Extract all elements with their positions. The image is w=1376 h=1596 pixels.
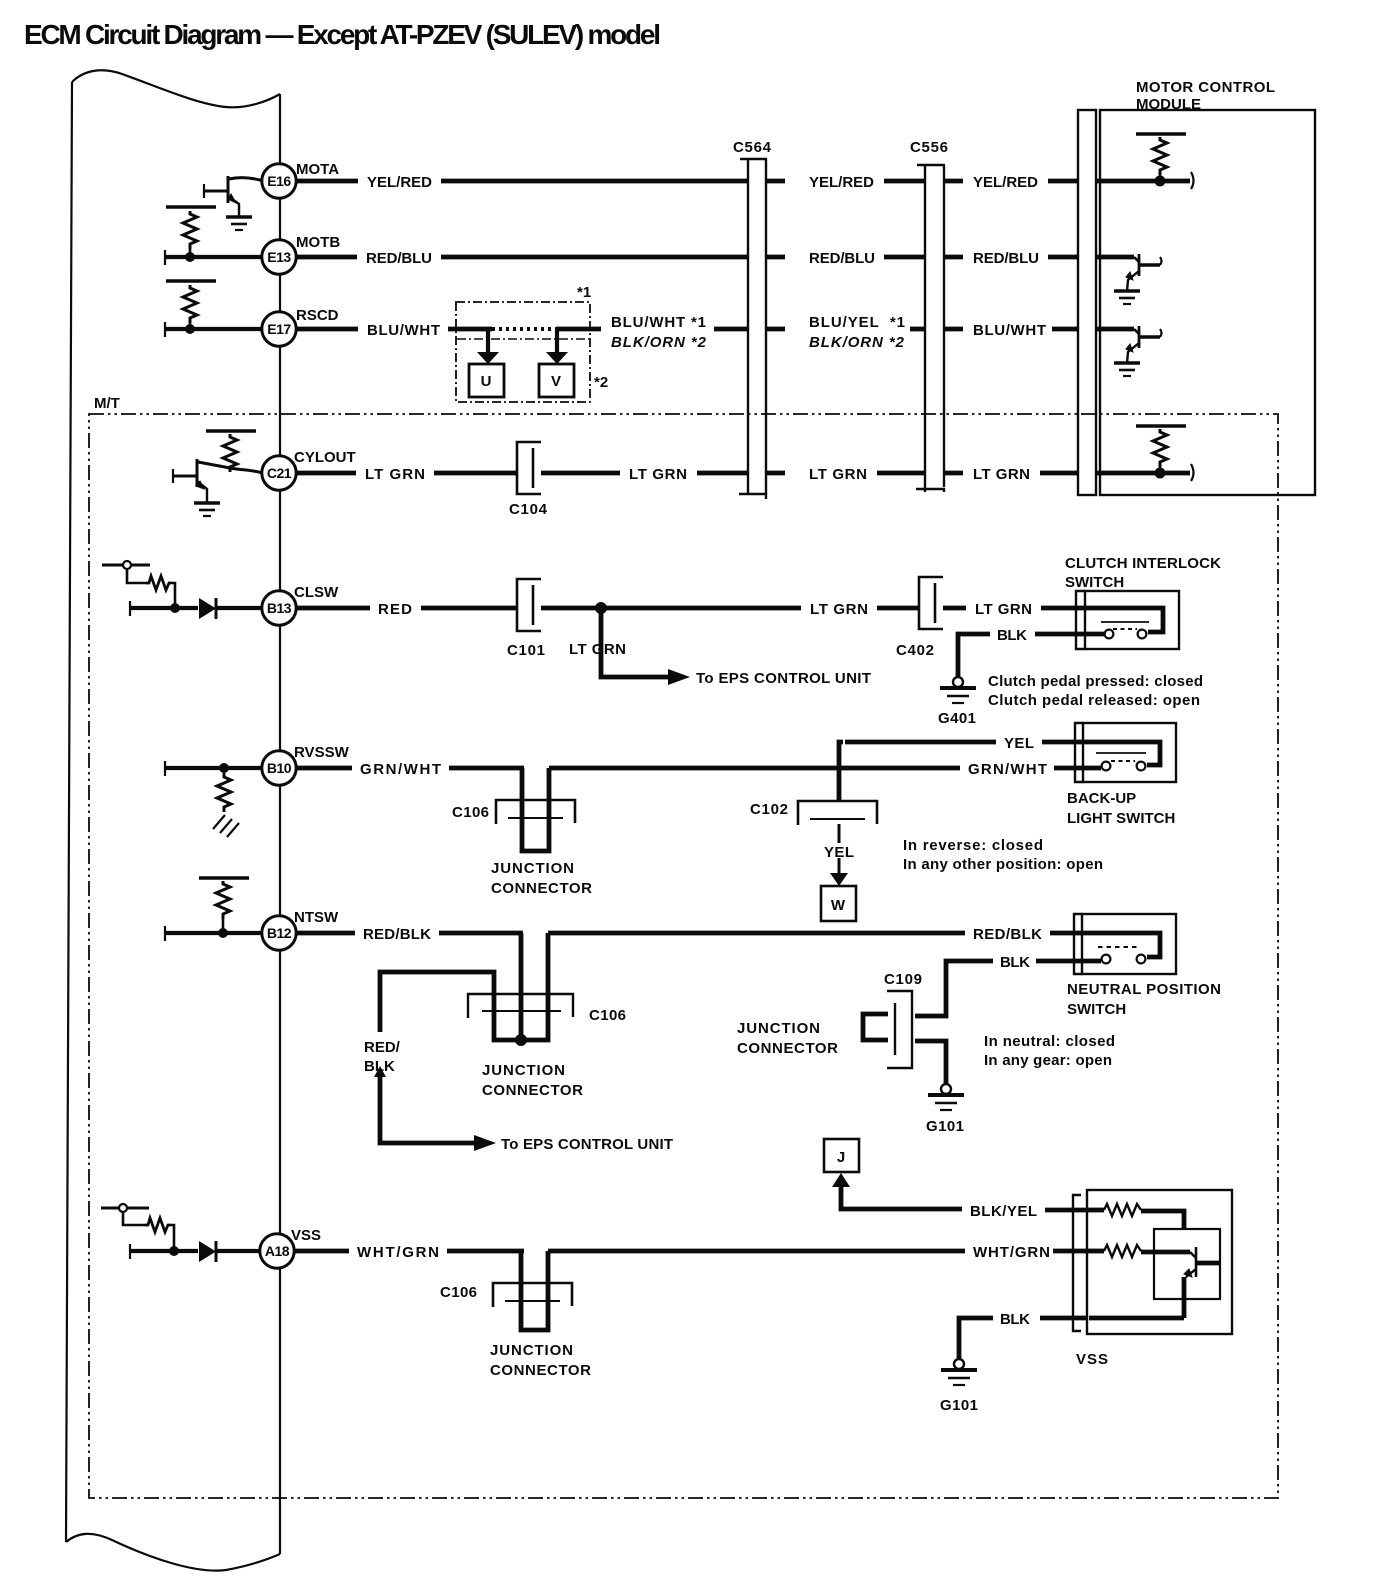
svg-text:VSS: VSS	[291, 1227, 321, 1244]
terminal box U	[469, 364, 504, 397]
svg-text:C102: C102	[750, 801, 788, 818]
wire (ECM internal to B13)	[131, 606, 198, 610]
pin E17	[262, 312, 296, 346]
wire (C564 stub)	[766, 327, 785, 332]
wire LT GRN (C402 to clutch switch)	[943, 606, 966, 611]
resistor (module row 4 pull-up)	[1136, 426, 1186, 473]
svg-text:BLU/WHT: BLU/WHT	[367, 322, 440, 339]
connector C402	[919, 577, 943, 629]
wire (resistor to A18 wire)	[171, 1225, 174, 1249]
wire (ECM internal top, B13)	[102, 564, 150, 567]
wire (module internal row 4)	[1096, 471, 1190, 476]
svg-text:LT GRN: LT GRN	[975, 601, 1032, 618]
junction (A18 internal)	[169, 1246, 179, 1256]
pin E13	[262, 240, 296, 274]
svg-text:C104: C104	[509, 501, 548, 518]
svg-text:Clutch pedal released: open: Clutch pedal released: open	[988, 692, 1200, 709]
wire RED/BLK (C106 to neutral switch)	[548, 931, 965, 936]
svg-text:E13: E13	[267, 249, 291, 265]
wire RED/BLU (C564 to C556)	[766, 255, 925, 260]
ground G101 (VSS)	[941, 1359, 977, 1385]
wire (option box to label)	[556, 327, 601, 332]
resistor (ECM internal at C21)	[206, 431, 256, 472]
transistor Q (ECM internal, at C21)	[173, 459, 263, 502]
back-up light switch	[1075, 723, 1176, 782]
svg-text:LT GRN: LT GRN	[629, 466, 687, 483]
clutch interlock switch label	[1065, 555, 1221, 591]
svg-text:MOTOR CONTROL: MOTOR CONTROL	[1136, 79, 1275, 96]
junction (B10 internal)	[219, 763, 229, 773]
VSS sensor box	[1087, 1190, 1232, 1334]
label JUNCTION CONNECTOR (C109)	[737, 1020, 838, 1057]
svg-text:RED/BLK: RED/BLK	[973, 926, 1042, 943]
svg-text:ECM Circuit Diagram — Except A: ECM Circuit Diagram — Except AT-PZEV (SU…	[24, 19, 661, 50]
wire LT GRN (C564 to C556)	[766, 471, 925, 476]
svg-text:LT GRN: LT GRN	[810, 601, 868, 618]
svg-text:C109: C109	[884, 971, 922, 988]
wire (module internal row 2)	[1096, 255, 1134, 260]
label JUNCTION CONNECTOR	[491, 860, 592, 897]
wire BLK (to C109 top)	[915, 961, 993, 1016]
junction connector C106 (third)	[493, 1251, 572, 1330]
wire RED/BLK branch (to EPS)	[380, 972, 494, 1143]
pin E16	[262, 164, 296, 198]
transistor (module row 2)	[1126, 254, 1162, 291]
resistor (ECM internal at E13)	[166, 207, 216, 257]
svg-text:B13: B13	[267, 600, 292, 616]
option box inner dashed line	[457, 338, 589, 340]
svg-text:B10: B10	[267, 760, 292, 776]
svg-text:CYLOUT: CYLOUT	[294, 449, 356, 466]
back-up light switch label	[1067, 790, 1175, 827]
svg-text:SWITCH: SWITCH	[1065, 574, 1124, 591]
svg-text:J: J	[837, 1149, 845, 1166]
svg-text:C564: C564	[733, 139, 772, 156]
wire (into neutral switch)	[1050, 931, 1083, 936]
svg-text:To EPS CONTROL UNIT: To EPS CONTROL UNIT	[501, 1136, 673, 1153]
svg-text:C21: C21	[267, 465, 292, 481]
wire (to module)	[1052, 327, 1078, 332]
svg-text:YEL/RED: YEL/RED	[809, 174, 874, 191]
ground (hatch, at B10 resistor)	[213, 815, 239, 837]
motor control module connector bar	[1078, 110, 1096, 495]
svg-text:RED/: RED/	[364, 1039, 401, 1056]
wire RED/BLK (B12 to C106)	[295, 931, 523, 936]
arrow (to EPS control unit)	[668, 669, 690, 685]
wire YEL/RED (E16 to C564)	[295, 179, 748, 184]
wire YEL/RED (C564 to C556)	[766, 179, 925, 184]
svg-text:Clutch pedal pressed: closed: Clutch pedal pressed: closed	[988, 673, 1203, 690]
motor control module box	[1100, 110, 1315, 495]
svg-text:BLK: BLK	[1000, 1311, 1030, 1328]
wire (ECM internal to A18)	[131, 1249, 198, 1253]
svg-text:W: W	[831, 897, 846, 914]
wire (C556 stub)	[944, 327, 963, 332]
wire stub V	[555, 329, 559, 352]
svg-text:NTSW: NTSW	[294, 909, 339, 926]
wire (ECM internal to B12)	[166, 931, 263, 935]
svg-text:RED/BLU: RED/BLU	[366, 250, 432, 267]
svg-text:BACK-UP: BACK-UP	[1067, 790, 1136, 807]
svg-text:RED: RED	[378, 601, 412, 618]
wire (module internal row 1)	[1096, 179, 1190, 184]
ground (module row 3)	[1114, 363, 1140, 376]
wire (resistor to B13 wire)	[172, 583, 175, 606]
svg-text:C106: C106	[440, 1284, 477, 1301]
wire GRN/WHT (C106 to back-up switch)	[549, 766, 960, 771]
pin B13	[262, 591, 296, 625]
svg-text:C101: C101	[507, 642, 545, 659]
connector C109	[863, 991, 912, 1068]
wire (to C556)	[910, 327, 925, 332]
ground (at C21 transistor)	[194, 503, 220, 516]
diode (ECM internal at B13)	[199, 598, 263, 619]
svg-text:*2: *2	[594, 374, 608, 391]
terminal box J	[824, 1139, 859, 1172]
label RED/ BLK	[364, 1039, 401, 1075]
wire (branch to EPS)	[601, 608, 668, 677]
wire BLK/YEL (J to VSS)	[841, 1186, 962, 1209]
arrow to W	[830, 873, 848, 886]
resistor (ECM internal at B10)	[217, 768, 231, 812]
note neutral states	[984, 1033, 1115, 1069]
svg-text:LT GRN: LT GRN	[569, 641, 626, 658]
arrow (branch direction up)	[374, 1066, 386, 1077]
svg-text:G101: G101	[940, 1397, 978, 1414]
svg-text:*1: *1	[577, 284, 591, 301]
wire (C109 bottom to G101)	[915, 1041, 946, 1083]
svg-text:To EPS CONTROL UNIT: To EPS CONTROL UNIT	[696, 670, 871, 687]
resistor (ECM internal at E17)	[166, 281, 216, 329]
wire (to C564)	[714, 327, 748, 332]
svg-text:MOTA: MOTA	[296, 161, 339, 178]
wire YEL (C102 to W)	[838, 824, 841, 873]
wire LT GRN (C101 to C402)	[541, 606, 801, 611]
option dashed box *1	[456, 302, 590, 402]
terminal tick	[1191, 172, 1194, 189]
resistor (VSS internal, WHT/GRN row)	[1089, 1245, 1190, 1257]
svg-text:WHT/GRN: WHT/GRN	[973, 1244, 1050, 1261]
svg-text:E17: E17	[267, 321, 291, 337]
wire stub U	[486, 329, 490, 352]
M/T dashed boundary box	[89, 414, 1278, 1498]
terminal tick	[129, 601, 131, 616]
pin B10	[262, 751, 296, 785]
svg-text:In reverse: closed: In reverse: closed	[903, 837, 1043, 854]
junction (B13 internal)	[170, 603, 180, 613]
wire BLU/WHT (into option box)	[448, 327, 492, 332]
terminal tick	[1191, 464, 1194, 481]
svg-text:BLU/YEL *1: BLU/YEL *1	[809, 314, 905, 331]
svg-text:E16: E16	[267, 173, 291, 189]
wire WHT/GRN (C106 to VSS sensor)	[548, 1249, 965, 1254]
wire (module internal row 3)	[1096, 327, 1134, 332]
ECM module torn-paper body	[66, 70, 280, 1570]
junction (B12 internal)	[218, 928, 228, 938]
neutral position switch label	[1067, 981, 1221, 1018]
resistor (ECM internal at B12)	[199, 878, 249, 933]
junction (module row 4)	[1155, 468, 1166, 479]
svg-text:CONNECTOR: CONNECTOR	[737, 1040, 838, 1057]
svg-text:C402: C402	[896, 642, 934, 659]
wire RED/BLU (C556 to module)	[944, 255, 1078, 260]
terminal box W	[821, 886, 856, 921]
svg-text:JUNCTION: JUNCTION	[482, 1062, 565, 1079]
svg-text:B12: B12	[267, 925, 292, 941]
connector C564	[739, 159, 767, 499]
connector C101	[517, 579, 541, 631]
svg-text:YEL: YEL	[1004, 735, 1034, 752]
svg-text:LIGHT SWITCH: LIGHT SWITCH	[1067, 810, 1175, 827]
svg-text:RSCD: RSCD	[296, 307, 339, 324]
terminal box V	[539, 364, 574, 397]
svg-text:G101: G101	[926, 1118, 964, 1135]
diode (ECM internal at A18)	[199, 1241, 261, 1262]
svg-text:JUNCTION: JUNCTION	[737, 1020, 820, 1037]
svg-text:U: U	[481, 373, 492, 390]
svg-text:BLK/YEL: BLK/YEL	[970, 1203, 1037, 1220]
svg-text:SWITCH: SWITCH	[1067, 1001, 1126, 1018]
svg-text:In any other position: open: In any other position: open	[903, 856, 1103, 873]
ground (module row 2)	[1114, 291, 1140, 304]
svg-text:BLK: BLK	[997, 627, 1027, 644]
svg-text:YEL/RED: YEL/RED	[367, 174, 432, 191]
transistor Q (ECM internal, at E16)	[204, 176, 263, 216]
svg-text:YEL: YEL	[824, 844, 854, 861]
svg-text:NEUTRAL POSITION: NEUTRAL POSITION	[1067, 981, 1221, 998]
svg-text:C106: C106	[452, 804, 489, 821]
wire (ECM internal to B10)	[166, 766, 263, 770]
transistor (VSS internal)	[1184, 1247, 1219, 1318]
svg-text:LT GRN: LT GRN	[973, 466, 1030, 483]
wire RED/BLU (E13 to C564)	[295, 255, 748, 260]
svg-text:M/T: M/T	[94, 395, 120, 412]
svg-text:YEL/RED: YEL/RED	[973, 174, 1038, 191]
arrow into J	[832, 1173, 850, 1187]
connector C556	[916, 165, 945, 492]
ground (at E16 transistor)	[226, 217, 252, 230]
junction connector C106 (second)	[468, 933, 573, 1040]
svg-text:G401: G401	[938, 710, 976, 727]
svg-text:BLK: BLK	[1000, 954, 1030, 971]
svg-text:LT GRN: LT GRN	[809, 466, 867, 483]
wire (YEL drop to C102)	[839, 742, 843, 802]
wire BLK (neutral switch to C109)	[1036, 959, 1083, 964]
wire BLK (VSS to label)	[1040, 1316, 1087, 1321]
resistor (ECM internal at B13)	[146, 576, 172, 590]
junction (LT GRN branch)	[595, 602, 607, 614]
wire (into back-up switch)	[1054, 766, 1084, 771]
label JUNCTION CONNECTOR	[482, 1062, 583, 1099]
svg-text:CLUTCH INTERLOCK: CLUTCH INTERLOCK	[1065, 555, 1221, 572]
svg-text:RED/BLU: RED/BLU	[809, 250, 875, 267]
svg-text:C106: C106	[589, 1007, 626, 1024]
ground G101	[928, 1084, 964, 1110]
resistor (VSS internal, BLK/YEL row)	[1089, 1204, 1184, 1229]
wire LT GRN (C556 to module)	[944, 471, 1078, 476]
arrow to V	[546, 352, 568, 364]
wire YEL/RED (C556 to module)	[944, 179, 1078, 184]
svg-text:A18: A18	[265, 1243, 290, 1259]
terminal tick	[164, 761, 166, 776]
terminal tick	[129, 1244, 131, 1259]
connector C104	[517, 442, 541, 494]
junction connector C106	[496, 768, 575, 851]
svg-text:RED/BLU: RED/BLU	[973, 250, 1039, 267]
node (open terminal, A18 internal)	[119, 1204, 127, 1212]
svg-text:RVSSW: RVSSW	[294, 744, 350, 761]
svg-text:BLK: BLK	[364, 1058, 395, 1075]
wire (dotted option segment)	[492, 327, 556, 331]
wire (to C402)	[877, 606, 919, 611]
svg-text:JUNCTION: JUNCTION	[491, 860, 574, 877]
wire BLU/WHT (E17 to option box)	[295, 327, 358, 332]
wire BLK (to G401)	[958, 634, 990, 676]
arrow (to EPS control unit)	[474, 1135, 496, 1151]
motor control module label	[1136, 79, 1275, 113]
svg-text:In any gear: open: In any gear: open	[984, 1052, 1112, 1069]
junction (E17 wire / resistor)	[185, 324, 195, 334]
node (open terminal, B13 internal)	[123, 561, 131, 569]
resistor (module row 1 pull-up)	[1136, 134, 1186, 181]
junction connector C102	[798, 801, 877, 825]
wire (down from terminal)	[127, 569, 148, 583]
svg-text:JUNCTION: JUNCTION	[490, 1342, 573, 1359]
wire GRN/WHT (B10 to C106)	[295, 766, 524, 771]
svg-text:In neutral: closed: In neutral: closed	[984, 1033, 1115, 1050]
svg-text:MOTB: MOTB	[296, 234, 340, 251]
wire LT GRN (C104 to C564)	[541, 471, 748, 476]
wire (ECM internal to E17)	[166, 327, 263, 331]
neutral position switch	[1074, 914, 1176, 974]
wire BLK (clutch switch to ground)	[1035, 632, 1085, 637]
resistor (ECM internal at A18)	[145, 1218, 171, 1232]
wire (ECM internal top, A18)	[101, 1207, 149, 1210]
wire (ECM internal to E13)	[166, 255, 263, 259]
wire (down from terminal)	[123, 1212, 147, 1225]
svg-text:BLU/WHT *1: BLU/WHT *1	[611, 314, 706, 331]
terminal tick	[164, 322, 166, 337]
transistor (module row 3)	[1126, 326, 1162, 363]
wire BLK (to G101)	[959, 1318, 993, 1358]
note clutch pedal states	[988, 673, 1203, 709]
svg-text:CLSW: CLSW	[294, 584, 339, 601]
svg-text:VSS: VSS	[1076, 1351, 1108, 1368]
ground G401	[940, 677, 976, 703]
wire (into clutch switch)	[1041, 606, 1086, 611]
svg-text:RED/BLK: RED/BLK	[363, 926, 431, 943]
svg-text:V: V	[551, 373, 561, 390]
VSS sensor connector bracket	[1073, 1195, 1081, 1331]
svg-text:BLU/WHT: BLU/WHT	[973, 322, 1046, 339]
wire RED (B13 to C101)	[295, 606, 517, 611]
clutch interlock switch	[1076, 591, 1179, 649]
junction (E13 wire / resistor)	[185, 252, 195, 262]
wire LT GRN (C21 to C104)	[295, 471, 517, 476]
wire BLK/YEL (into VSS)	[1045, 1208, 1089, 1213]
wire BLK (VSS bottom row)	[1089, 1316, 1184, 1321]
svg-text:CONNECTOR: CONNECTOR	[491, 880, 592, 897]
pin B12	[262, 916, 296, 950]
wire WHT/GRN (A18 to C106)	[293, 1249, 524, 1254]
VSS inner element box	[1154, 1229, 1220, 1299]
svg-text:CONNECTOR: CONNECTOR	[490, 1362, 591, 1379]
svg-text:C556: C556	[910, 139, 948, 156]
label JUNCTION CONNECTOR	[490, 1342, 591, 1379]
svg-text:CONNECTOR: CONNECTOR	[482, 1082, 583, 1099]
terminal tick	[164, 926, 166, 941]
wire YEL (back-up switch to C102)	[845, 740, 1084, 745]
junction (C106 cup)	[515, 1034, 527, 1046]
svg-text:LT GRN: LT GRN	[365, 466, 425, 483]
pin A18	[260, 1234, 294, 1268]
arrow to U	[477, 352, 499, 364]
note reverse states	[903, 837, 1103, 873]
pin C21	[262, 456, 296, 490]
terminal tick	[164, 250, 166, 265]
junction (module row 1)	[1155, 176, 1166, 187]
wire (into VSS sensor)	[1053, 1249, 1089, 1254]
svg-text:BLK/ORN *2: BLK/ORN *2	[611, 334, 707, 351]
svg-text:BLK/ORN *2: BLK/ORN *2	[809, 334, 905, 351]
